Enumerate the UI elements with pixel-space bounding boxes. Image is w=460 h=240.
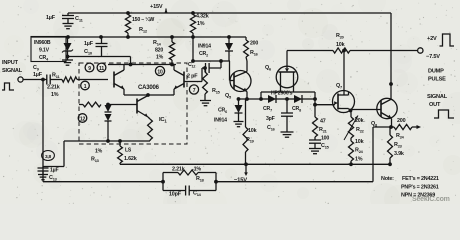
label -7.5V xyxy=(426,54,440,60)
watermark SeekIC.com xyxy=(412,196,450,203)
capacitor C9 xyxy=(33,65,50,85)
resistor R20 10k xyxy=(333,33,350,53)
transistor Q8 xyxy=(377,98,397,118)
terminal dump pulse xyxy=(418,48,423,53)
svg-text:C15: C15 xyxy=(321,143,330,150)
wire Q8 collector xyxy=(389,13,393,99)
svg-text:2.21k: 2.21k xyxy=(172,167,185,173)
svg-text:10k: 10k xyxy=(355,139,364,145)
svg-text:R24: R24 xyxy=(355,148,364,155)
node bridge left xyxy=(259,97,263,101)
svg-text:11: 11 xyxy=(99,66,104,72)
svg-text:INPUT: INPUT xyxy=(2,60,19,66)
svg-text:1%: 1% xyxy=(95,149,103,155)
node feedback net right xyxy=(214,180,218,184)
dump pulse glyph xyxy=(440,34,455,46)
wire cs base xyxy=(108,104,137,106)
svg-text:Q5: Q5 xyxy=(225,93,232,100)
node bridge right xyxy=(313,97,317,101)
svg-text:3,8: 3,8 xyxy=(45,154,52,160)
svg-text:1µF: 1µF xyxy=(46,15,56,21)
label box IN960B xyxy=(31,37,66,62)
resistor R14 820 xyxy=(153,35,175,64)
resistor R16 200 xyxy=(244,37,259,61)
label Q8 xyxy=(371,121,378,128)
svg-text:3.9k: 3.9k xyxy=(394,151,404,157)
svg-text:R19: R19 xyxy=(246,137,255,144)
wire Q7 to R22 xyxy=(350,111,352,117)
label DUMP PULSE xyxy=(428,69,446,83)
wire Q5 emitter xyxy=(245,92,249,101)
svg-text:R23: R23 xyxy=(394,142,403,149)
svg-text:SIGNAL: SIGNAL xyxy=(2,68,23,74)
pin 12 xyxy=(78,114,87,123)
svg-text:200: 200 xyxy=(397,118,406,124)
svg-text:1µF: 1µF xyxy=(84,41,94,47)
wire feedback left xyxy=(43,80,163,182)
note transistor types xyxy=(381,176,439,199)
svg-text:3pF: 3pF xyxy=(266,116,275,122)
ground under C15 xyxy=(309,149,321,154)
svg-text:IN960B: IN960B xyxy=(34,40,51,46)
wire hold to Q7 gate xyxy=(315,104,333,106)
label -15V supply xyxy=(234,166,248,184)
wire 4.32k to CR2 xyxy=(191,59,230,63)
svg-text:150 – ¼W: 150 – ¼W xyxy=(132,16,154,23)
wire pins 3,8 to C13 xyxy=(43,141,64,167)
pin 9 xyxy=(85,63,94,72)
svg-text:R11: R11 xyxy=(52,73,60,80)
svg-text:+2V: +2V xyxy=(427,36,437,42)
svg-text:R12: R12 xyxy=(139,27,148,34)
label IC1 xyxy=(159,117,167,124)
signal out glyph xyxy=(434,110,454,118)
resistor R24 10k xyxy=(349,138,364,164)
transistor current source xyxy=(137,95,148,117)
svg-text:-1%: -1% xyxy=(192,167,201,173)
svg-text:R13: R13 xyxy=(91,157,100,164)
diode CR7 xyxy=(263,95,276,113)
diode CR8 xyxy=(292,95,302,113)
svg-text:1µF: 1µF xyxy=(33,72,43,78)
wire IC bottom xyxy=(64,140,150,142)
wire IC top xyxy=(108,63,176,67)
resistor IC bias xyxy=(79,102,110,107)
resistor R22 20k pot xyxy=(344,116,365,141)
svg-text:R21: R21 xyxy=(319,127,328,134)
svg-text:FET's = 2N4221: FET's = 2N4221 xyxy=(402,176,439,182)
resistor R21 47 xyxy=(313,117,328,140)
capacitor C11 xyxy=(46,13,84,23)
svg-text:1.62k: 1.62k xyxy=(124,156,137,162)
svg-text:C13: C13 xyxy=(49,175,58,182)
resistor cs emitter xyxy=(148,117,153,141)
node feedback-input junction xyxy=(41,78,45,82)
svg-text:9: 9 xyxy=(88,66,91,72)
svg-text:IC1: IC1 xyxy=(159,117,167,124)
diode pair IC xyxy=(105,105,112,143)
transistor Q5 xyxy=(230,61,251,92)
resistor R19 10k xyxy=(243,99,257,164)
wire -15V rail xyxy=(120,162,392,166)
node on zener bus under C11 xyxy=(66,35,70,39)
svg-text:1%: 1% xyxy=(156,55,164,61)
svg-text:Q6: Q6 xyxy=(265,65,272,72)
svg-text:Q7: Q7 xyxy=(336,83,342,90)
svg-text:R22: R22 xyxy=(356,127,365,134)
svg-text:20k: 20k xyxy=(355,118,364,124)
wire zener to C10 xyxy=(68,56,102,58)
svg-text:1%: 1% xyxy=(355,157,363,163)
wire bus drops xyxy=(261,92,315,99)
svg-text:1: 1 xyxy=(84,84,87,90)
svg-text:R16: R16 xyxy=(250,50,259,57)
svg-text:PULSE: PULSE xyxy=(428,77,446,83)
transistor right of diff pair xyxy=(174,65,184,96)
label Q7 xyxy=(336,83,342,90)
svg-text:12: 12 xyxy=(80,116,86,122)
svg-text:10k: 10k xyxy=(336,42,345,48)
svg-text:10k: 10k xyxy=(248,128,257,134)
label Q6 xyxy=(265,65,272,72)
pin 11 xyxy=(97,63,106,72)
resistor R12 150 xyxy=(125,11,154,39)
input pulse glyph xyxy=(2,83,14,90)
wire Q8 emitter xyxy=(389,119,393,129)
ground under R15 xyxy=(200,101,211,106)
wire Q6 legs bus xyxy=(261,91,315,93)
resistor 4.32k xyxy=(190,11,208,61)
zener diode CR4 xyxy=(62,37,73,58)
ground under CR4 xyxy=(62,57,73,66)
resistor R23 3.9k xyxy=(388,127,404,164)
capacitor C10 xyxy=(84,35,131,64)
diode CR6 IN914 to ground xyxy=(214,97,243,123)
transistor left of diff pair xyxy=(114,65,124,96)
svg-text:100: 100 xyxy=(321,136,329,142)
svg-text:CA3006: CA3006 xyxy=(138,85,160,91)
capacitor C13 xyxy=(38,167,59,182)
label INPUT SIGNAL xyxy=(2,60,23,74)
capacitor C15 100 xyxy=(309,136,330,150)
svg-text:2 pF: 2 pF xyxy=(187,74,198,80)
resistor R18 2.21k feedback xyxy=(163,167,216,183)
svg-text:R18: R18 xyxy=(196,176,205,183)
svg-text:1%: 1% xyxy=(51,92,59,98)
capacitor C12 2pF xyxy=(187,61,221,80)
svg-text:C16: C16 xyxy=(267,125,276,132)
resistor R25 200 output xyxy=(391,118,421,140)
pin 3,8 xyxy=(42,151,55,161)
svg-text:10: 10 xyxy=(157,69,163,75)
wire zener bus xyxy=(31,36,246,38)
svg-text:4.32k: 4.32k xyxy=(196,14,209,20)
node feedback net left xyxy=(161,180,165,184)
svg-text:7: 7 xyxy=(193,88,196,94)
svg-text:R14: R14 xyxy=(153,40,162,47)
capacitor C16 3pF xyxy=(266,99,293,132)
svg-text:SeekIC.com: SeekIC.com xyxy=(412,196,450,203)
wire hold node xyxy=(313,99,317,117)
ground under CR6 xyxy=(234,122,244,127)
svg-text:C14: C14 xyxy=(193,191,202,198)
ground under C13 xyxy=(38,175,48,180)
label +2V xyxy=(427,36,437,42)
node CR7-CR8 mid xyxy=(285,97,289,101)
label SIGNAL OUT xyxy=(427,94,448,108)
svg-text:DUMP: DUMP xyxy=(428,69,444,75)
svg-text:LS: LS xyxy=(125,148,132,154)
pin 7 xyxy=(189,85,198,94)
resistor R11 2.21k xyxy=(47,73,108,99)
svg-text:C11: C11 xyxy=(75,16,84,23)
svg-text:200: 200 xyxy=(250,41,258,47)
svg-text:2.21k: 2.21k xyxy=(47,85,60,91)
svg-text:R24: R24 xyxy=(396,133,405,140)
resistor R15 xyxy=(203,66,221,100)
svg-text:1µF: 1µF xyxy=(50,168,58,174)
svg-text:Note:: Note: xyxy=(381,176,394,182)
svg-text:+15V: +15V xyxy=(150,4,163,10)
wire diff emitters xyxy=(124,93,174,97)
pin 10 xyxy=(155,66,164,75)
wire sample bridge xyxy=(239,98,316,100)
svg-text:47: 47 xyxy=(320,119,326,125)
capacitor C14 10pF feedback xyxy=(163,182,216,198)
svg-text:1%: 1% xyxy=(197,21,205,27)
IC1 CA3006 dashed outline xyxy=(79,63,187,144)
svg-text:820: 820 xyxy=(155,48,163,54)
svg-text:PNP's = 2N3261: PNP's = 2N3261 xyxy=(401,185,439,191)
ground under C16 xyxy=(281,132,294,137)
ground under C11 xyxy=(63,24,74,29)
input terminal xyxy=(18,77,43,82)
pin 1 xyxy=(81,81,90,90)
wire dump pulse line xyxy=(287,49,418,53)
svg-text:−15V: −15V xyxy=(234,178,247,184)
svg-text:R15: R15 xyxy=(212,88,221,95)
wire right base xyxy=(184,68,204,82)
svg-text:C10: C10 xyxy=(84,49,93,56)
wire CR2 node to Q5 base xyxy=(230,61,235,81)
svg-text:SIGNAL: SIGNAL xyxy=(427,94,448,100)
transistor Q6 FET xyxy=(276,51,298,93)
svg-text:OUT: OUT xyxy=(429,102,441,108)
node +15V feed xyxy=(150,4,167,13)
svg-text:9.1V: 9.1V xyxy=(39,48,50,54)
svg-text:R20: R20 xyxy=(336,33,344,40)
svg-text:−7.5V: −7.5V xyxy=(426,54,440,60)
wire feedback right xyxy=(216,127,391,182)
svg-text:IN914: IN914 xyxy=(198,44,211,50)
label HP2900s xyxy=(271,91,293,97)
wire input to C9 xyxy=(43,79,47,81)
diode CR2 IN914 xyxy=(198,35,233,61)
transistor Q7 FET xyxy=(333,51,355,113)
svg-text:10pF: 10pF xyxy=(169,192,182,198)
resistor R13 1.62k xyxy=(91,139,137,164)
svg-text:IN914: IN914 xyxy=(214,118,227,124)
wire Q7 source node xyxy=(349,109,381,113)
label CA3006 xyxy=(138,85,160,91)
label Q5 xyxy=(225,93,232,100)
wire +15V top rail xyxy=(68,12,391,14)
